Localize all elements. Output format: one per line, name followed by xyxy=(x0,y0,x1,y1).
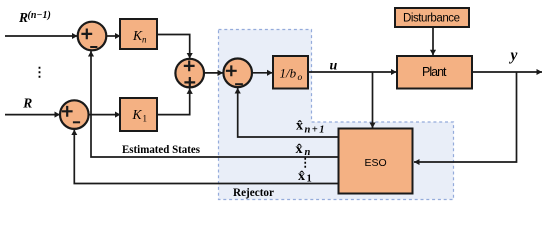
svg-text:n+1: n+1 xyxy=(305,125,325,136)
block ESO xyxy=(339,129,413,194)
svg-text:o: o xyxy=(298,73,303,83)
svg-text:x̂: x̂ xyxy=(296,142,303,157)
summer S1 xyxy=(78,22,107,51)
wire xhat n+1 from ESO to S4 xyxy=(238,88,339,137)
svg-text:y: y xyxy=(509,47,518,64)
wire R^(n-1) input xyxy=(5,35,78,37)
wire Kn to S3 (right then down) xyxy=(157,35,190,59)
svg-text:⋮: ⋮ xyxy=(33,65,46,80)
wire 1/bo to Plant, u line xyxy=(308,71,397,73)
svg-text:ESO: ESO xyxy=(365,157,387,169)
block Disturbance xyxy=(395,8,469,27)
svg-text:Plant: Plant xyxy=(422,65,447,79)
svg-text:x̂: x̂ xyxy=(296,119,303,134)
wire Plant output y xyxy=(472,71,542,73)
svg-text:1/b: 1/b xyxy=(280,66,297,81)
svg-text:R: R xyxy=(18,10,28,25)
block Plant xyxy=(397,56,472,89)
block 1/bo xyxy=(273,56,308,89)
wire S4 to 1/bo xyxy=(252,72,273,74)
svg-text:(n−1): (n−1) xyxy=(28,10,51,21)
svg-text:x̂: x̂ xyxy=(298,169,305,184)
wire y feedback branch to ESO xyxy=(414,72,517,162)
summer S3 xyxy=(175,59,204,88)
wire Disturbance to Plant xyxy=(432,27,434,55)
svg-text:u: u xyxy=(330,59,338,74)
block K1 xyxy=(120,98,157,131)
svg-text:Estimated States: Estimated States xyxy=(122,142,200,156)
summer S2 xyxy=(60,100,89,129)
wire R input xyxy=(5,114,60,116)
svg-text:1: 1 xyxy=(143,113,148,123)
wire S3 to S4 xyxy=(204,72,223,74)
wire xhat 1 from ESO to S2 xyxy=(74,130,338,184)
wire S2 to K1 xyxy=(89,114,121,116)
wire xhat n (Estimated States) from ESO to S1 xyxy=(91,51,339,157)
wire u branch down to ESO xyxy=(372,72,374,128)
wire S1 to Kn xyxy=(107,35,121,37)
svg-text:Disturbance: Disturbance xyxy=(403,13,460,25)
svg-text:Rejector: Rejector xyxy=(233,187,274,199)
summer S4 xyxy=(223,59,252,88)
block Kn xyxy=(120,19,157,49)
Rejector dashed region (L-shaped) xyxy=(219,30,454,200)
wire K1 to S3 (right then up) xyxy=(157,88,190,114)
svg-text:n: n xyxy=(142,34,147,44)
svg-text:R: R xyxy=(22,96,32,111)
svg-text:K: K xyxy=(132,107,143,122)
svg-text:⋮: ⋮ xyxy=(300,156,312,169)
